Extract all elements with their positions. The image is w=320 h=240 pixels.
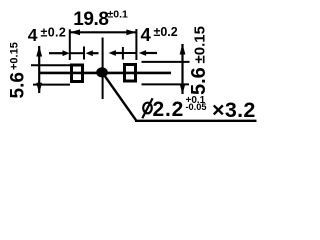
svg-text:-0.05: -0.05 bbox=[186, 102, 207, 112]
svg-text:×3.2: ×3.2 bbox=[212, 98, 256, 122]
vertical center line bbox=[102, 38, 104, 100]
arrowhead right of 19.8 bbox=[126, 29, 136, 35]
arrowhead pointing left at right extension bbox=[139, 50, 146, 56]
extension line left (x=69.8) bbox=[69, 29, 71, 60]
dimension line 4 right: arrowhead pointing left near centerline bbox=[109, 50, 116, 56]
svg-text:±0.15: ±0.15 bbox=[192, 26, 209, 63]
left bottom extension line bbox=[33, 84, 70, 86]
svg-text:4: 4 bbox=[141, 24, 152, 45]
dimension line 19.8 bbox=[70, 31, 136, 33]
extension line right (x=136.4) bbox=[135, 29, 137, 60]
svg-text:±0.1: ±0.1 bbox=[108, 9, 129, 21]
tail to tick bbox=[115, 52, 123, 54]
right top extension line bbox=[142, 61, 190, 63]
center hole (filled) bbox=[96, 67, 108, 77]
tick at left square right edge bbox=[83, 47, 85, 60]
svg-text:4: 4 bbox=[28, 25, 38, 45]
left rectangular hole bbox=[72, 65, 83, 82]
tick at right square left edge bbox=[122, 47, 124, 60]
tail right of arrowhead bbox=[92, 52, 99, 54]
svg-text:±0.2: ±0.2 bbox=[154, 25, 178, 39]
phi symbol of bottom label bbox=[143, 103, 152, 114]
dim line between ticks left bbox=[70, 52, 84, 54]
arrowhead pointing right at left square left edge bbox=[63, 50, 70, 56]
leader line from center hole bbox=[104, 75, 136, 120]
dim line between ticks right bbox=[123, 52, 136, 54]
svg-text:±0.2: ±0.2 bbox=[41, 26, 67, 40]
leader shelf under bottom label bbox=[135, 120, 257, 122]
svg-text:5.6: 5.6 bbox=[8, 72, 29, 98]
arrowhead down right 5.6 bbox=[180, 84, 186, 95]
arrowhead pointing left at tick bbox=[86, 50, 93, 56]
svg-text:5.6: 5.6 bbox=[188, 67, 210, 95]
right 5.6 dimension line bbox=[181, 44, 183, 94]
arrowhead left of 19.8 bbox=[70, 29, 80, 35]
arrowhead up left 5.6 bbox=[36, 46, 42, 57]
svg-text:19.8: 19.8 bbox=[73, 9, 108, 30]
dimension line 4 left: tail bbox=[49, 52, 64, 54]
left top extension line bbox=[31, 64, 70, 66]
horizontal axis line bbox=[40, 72, 171, 75]
tail right of arrowhead bbox=[146, 52, 158, 54]
right rectangular hole bbox=[125, 65, 136, 82]
left 5.6 dimension line bbox=[38, 46, 40, 93]
svg-text:+0.15: +0.15 bbox=[9, 42, 21, 70]
arrowhead up right 5.6 bbox=[180, 44, 186, 55]
svg-text:2.2: 2.2 bbox=[153, 98, 185, 121]
arrowhead down left 5.6 bbox=[36, 83, 42, 94]
right bottom extension line bbox=[142, 83, 190, 85]
